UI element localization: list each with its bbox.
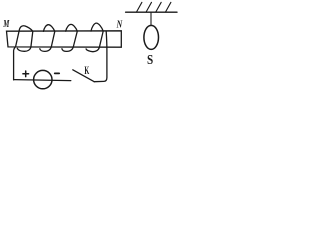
hanging ring S (ellipse) bbox=[144, 25, 159, 49]
battery cell circle bbox=[34, 70, 52, 88]
hanger string bbox=[150, 12, 152, 25]
solenoid core bar MN bbox=[7, 31, 122, 47]
wire left lead and coil winding 1 bbox=[14, 26, 33, 80]
ceiling line bbox=[126, 11, 177, 13]
svg-text:N: N bbox=[116, 19, 123, 30]
switch K blade (open) bbox=[73, 70, 94, 82]
battery minus sign bbox=[55, 72, 60, 74]
svg-text:S: S bbox=[147, 53, 153, 68]
wire bottom from left lead through battery bbox=[14, 80, 71, 81]
svg-text:M: M bbox=[3, 19, 10, 30]
coil winding 4 bbox=[86, 23, 103, 52]
coil winding 3 bbox=[62, 24, 77, 51]
coil winding 2 bbox=[40, 25, 55, 52]
battery plus sign bbox=[23, 71, 29, 77]
ceiling hatch tick 3 bbox=[156, 2, 161, 12]
wire right lead down to switch bbox=[94, 31, 107, 81]
svg-text:K: K bbox=[84, 65, 89, 77]
ceiling hatch tick 4 bbox=[166, 2, 171, 12]
ceiling hatch tick 2 bbox=[146, 2, 151, 12]
ceiling hatch tick 1 bbox=[137, 2, 142, 12]
